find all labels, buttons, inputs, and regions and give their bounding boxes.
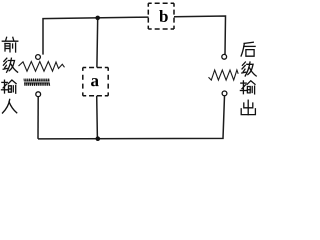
resistor: left big zigzag <box>19 62 65 72</box>
text 级 (left col 2) <box>3 58 17 72</box>
wire: left vertical lower <box>37 97 39 139</box>
terminal: right bottom circle <box>222 91 227 96</box>
label b <box>159 10 168 22</box>
wire: top wire right segment + right vertical upper <box>174 16 226 54</box>
resistor: left dense zigzag split <box>24 81 51 83</box>
wire: bottom wire + right vertical lower <box>38 96 225 139</box>
wire: middle branch top stub <box>96 18 99 68</box>
wire: top-left corner + top wire left segment + left vertical upper <box>43 17 149 55</box>
text 级 (right col 2) <box>242 62 256 76</box>
text 入 (left col 4) <box>3 99 17 113</box>
resistor: left dense zigzag <box>24 79 50 86</box>
label a <box>91 78 99 86</box>
resistor: right zigzag <box>209 70 239 80</box>
node: junction dot top <box>95 16 100 21</box>
text 前 (left col 1) <box>2 37 17 52</box>
terminal: right top circle <box>222 54 227 59</box>
text 输 (left col 3) <box>2 80 17 93</box>
box b (dashed) <box>148 3 174 29</box>
wire: middle branch bottom stub <box>96 96 99 139</box>
terminal: left top circle <box>36 55 41 60</box>
text 后 (right col 1) <box>241 42 255 56</box>
terminal: left bottom circle <box>36 92 41 97</box>
text 出 (right col 4) <box>241 100 255 114</box>
node: junction dot bottom <box>96 136 101 141</box>
text 输 (right col 3) <box>240 81 255 94</box>
box a (dashed) <box>83 68 108 96</box>
